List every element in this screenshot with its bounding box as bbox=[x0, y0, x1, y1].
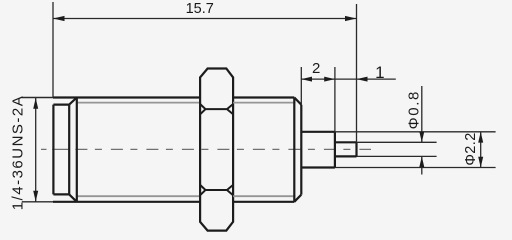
rear barrel top line bbox=[233, 96, 294, 98]
arrow 15.7 left bbox=[53, 16, 65, 21]
arrow thread dim down bbox=[33, 191, 38, 202]
insulator bead outline bbox=[301, 132, 335, 168]
rear chamfer bbox=[294, 98, 301, 202]
hex upper facet chamfer bbox=[200, 104, 233, 114]
rear end face bbox=[300, 105, 302, 195]
dia 2.2 extension top bbox=[335, 131, 496, 133]
arrow dia 2.2 down bbox=[478, 157, 483, 168]
dia 0.8 arrow stems bbox=[421, 86, 423, 175]
arrow thread dim up bbox=[33, 98, 38, 109]
hex nut bbox=[200, 69, 233, 231]
svg-text:15.7: 15.7 bbox=[186, 1, 214, 17]
arrow 15.7 right bbox=[345, 16, 357, 21]
svg-text:2: 2 bbox=[312, 60, 320, 77]
arrow dia 0.8 down bbox=[419, 132, 424, 143]
svg-text:Φ0.8: Φ0.8 bbox=[406, 90, 423, 129]
arrow dia 2.2 up bbox=[478, 132, 483, 143]
dim 15.7 extension line left bbox=[52, 2, 54, 97]
center pin bbox=[335, 142, 357, 156]
arrow dim 2 left bbox=[301, 77, 312, 82]
dim 2 extension right bbox=[334, 67, 336, 132]
svg-text:Φ2.2: Φ2.2 bbox=[463, 132, 479, 165]
thread root top line bbox=[77, 102, 200, 104]
rear thread root top bbox=[233, 102, 295, 104]
thread root bottom line bbox=[77, 195, 200, 197]
svg-text:1: 1 bbox=[375, 63, 384, 82]
arrow dia 0.8 up bbox=[419, 156, 424, 167]
pin bottom extension line bbox=[357, 155, 437, 157]
pin top extension line bbox=[357, 141, 437, 143]
dia 2.2 extension bottom bbox=[335, 167, 496, 169]
dim 15.7 extension line right bbox=[356, 4, 358, 142]
front face bbox=[53, 105, 69, 195]
arrow dim 2 right bbox=[324, 77, 335, 82]
rear thread root bottom bbox=[233, 195, 295, 197]
rear end edge bbox=[293, 98, 295, 202]
dim 15.7 line bbox=[53, 18, 357, 20]
thread crest top line bbox=[22, 97, 200, 99]
arrow dim 1 left-pointing bbox=[357, 77, 368, 82]
dim 2 and 1 line bbox=[301, 78, 396, 80]
thread crest bottom line bbox=[22, 201, 200, 203]
svg-text:1/4-36UNS-2A: 1/4-36UNS-2A bbox=[10, 95, 27, 211]
front chamfer bbox=[69, 98, 77, 202]
centerline bbox=[41, 148, 69, 150]
dim 2 extension left bbox=[300, 67, 302, 105]
thread dim line vertical bbox=[35, 98, 37, 202]
dia 2.2 dim line bbox=[480, 132, 482, 168]
rear barrel bottom line bbox=[233, 201, 294, 203]
hex lower facet chamfer bbox=[200, 185, 233, 195]
